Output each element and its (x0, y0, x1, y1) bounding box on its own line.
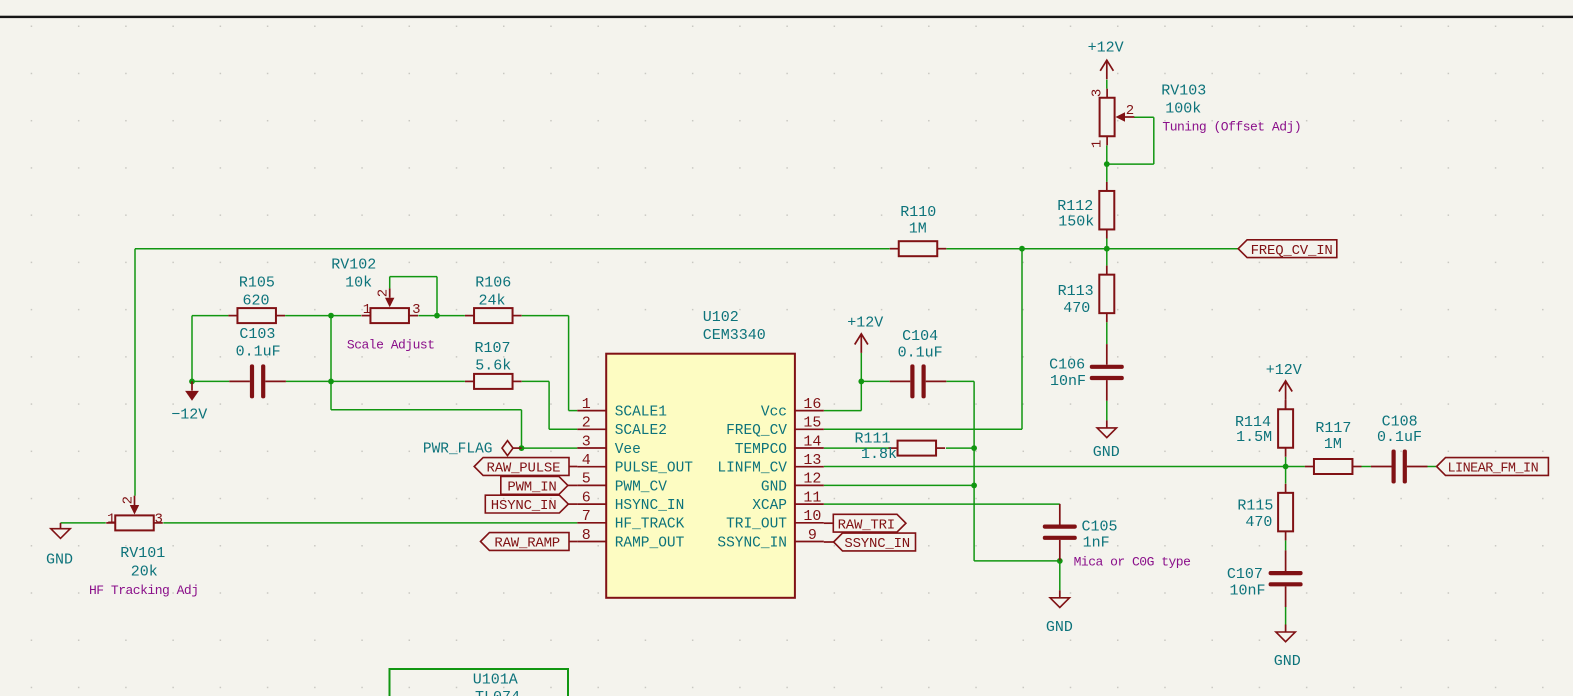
svg-text:0.1uF: 0.1uF (1377, 429, 1422, 446)
wire C103 to R107 (286, 380, 465, 382)
wire U102 pin15 FREQ_CV (824, 249, 1022, 429)
wire RV102 wiper loop (390, 277, 437, 316)
svg-text:R106: R106 (475, 275, 511, 292)
svg-text:+12V: +12V (1266, 362, 1302, 379)
svg-text:R117: R117 (1315, 420, 1351, 437)
wire -12V node to C103 (192, 380, 229, 382)
wire RV103 wiper loop (1107, 117, 1154, 164)
svg-text:R107: R107 (474, 340, 510, 357)
svg-text:SCALE2: SCALE2 (615, 423, 667, 439)
svg-text:Tuning (Offset Adj): Tuning (Offset Adj) (1162, 120, 1301, 135)
op-amp U102 CEM3340 (577, 309, 824, 598)
svg-text:1: 1 (107, 512, 115, 528)
svg-text:5: 5 (582, 471, 591, 488)
svg-text:HSYNC_IN: HSYNC_IN (615, 498, 685, 514)
svg-text:LINFM_CV: LINFM_CV (717, 461, 787, 477)
junction at 1285.6,466.5 (1283, 464, 1289, 470)
potentiometer RV101 20k (106, 496, 165, 581)
wire RV102 pin3 to R106 (418, 315, 465, 317)
wire FREQ_CV net horizontal rail (135, 248, 1239, 250)
svg-text:12: 12 (803, 471, 821, 488)
capacitor C106 10nF (1049, 344, 1124, 401)
svg-text:RAW_PULSE: RAW_PULSE (487, 461, 561, 477)
svg-text:R115: R115 (1237, 497, 1273, 514)
wire R107 to U102 pin2 SCALE2 (522, 381, 578, 429)
resistor R114 1.5M (1235, 400, 1293, 457)
svg-text:GND: GND (1093, 444, 1120, 461)
svg-text:U101A: U101A (473, 671, 518, 688)
global label LINEAR_FM_IN (1437, 458, 1549, 477)
svg-text:470: 470 (1245, 514, 1272, 531)
svg-text:1: 1 (582, 396, 591, 413)
svg-text:14: 14 (803, 433, 821, 450)
svg-text:TRI_OUT: TRI_OUT (726, 517, 787, 533)
svg-text:RV102: RV102 (331, 257, 376, 274)
svg-text:PWR_FLAG: PWR_FLAG (423, 442, 493, 458)
wire R105 left branch (192, 316, 228, 382)
svg-text:1: 1 (1089, 140, 1105, 148)
power -12V (171, 381, 207, 423)
svg-text:10: 10 (803, 508, 821, 525)
svg-text:GND: GND (46, 551, 73, 568)
junction at 1022,248.7 (1019, 246, 1025, 252)
wire RV101 pin3 to U102 pin7 HF_TRACK (163, 522, 577, 524)
wire U102 pin16 Vcc to +12V (824, 353, 862, 411)
junction at 437,315.6 (434, 313, 440, 319)
svg-text:+12V: +12V (1088, 39, 1124, 56)
wire GND to RV101 pin1 (61, 522, 106, 524)
svg-text:SSYNC_IN: SSYNC_IN (844, 536, 910, 552)
wire R113 to C106 (1106, 322, 1108, 344)
wire R117 to C108 (1362, 466, 1371, 468)
svg-text:−12V: −12V (171, 407, 207, 424)
svg-text:5.6k: 5.6k (475, 358, 511, 375)
svg-text:24k: 24k (478, 293, 505, 310)
svg-text:6: 6 (582, 489, 591, 506)
junction at 1106.8,248.7 (1104, 246, 1110, 252)
capacitor C104 0.1uF (890, 328, 947, 398)
svg-text:C104: C104 (902, 328, 938, 345)
wire node A vertical (330, 316, 332, 410)
wire RV103 top (1106, 80, 1108, 89)
svg-text:Vcc: Vcc (761, 405, 787, 421)
svg-text:U102: U102 (703, 309, 739, 326)
svg-text:8: 8 (582, 527, 591, 544)
svg-text:RV101: RV101 (120, 545, 165, 562)
svg-text:LINEAR_FM_IN: LINEAR_FM_IN (1448, 462, 1539, 477)
ground GND (C107) (1274, 625, 1301, 671)
svg-text:SCALE1: SCALE1 (615, 405, 667, 421)
svg-text:HF Tracking Adj: HF Tracking Adj (89, 583, 199, 598)
note Scale Adjust (347, 337, 435, 352)
svg-text:HSYNC_IN: HSYNC_IN (491, 498, 557, 514)
power +12V (U102 Vcc) (847, 314, 883, 353)
svg-text:CEM3340: CEM3340 (703, 327, 766, 344)
global label PWM_IN (501, 477, 578, 496)
svg-text:1nF: 1nF (1083, 534, 1110, 551)
svg-text:10nF: 10nF (1050, 373, 1086, 390)
svg-text:2: 2 (121, 496, 137, 504)
wire R111 to node B (946, 447, 974, 449)
junction at 861.3,381.4 (858, 379, 864, 385)
svg-text:C105: C105 (1082, 519, 1118, 536)
note HF Tracking Adj (89, 583, 199, 598)
svg-text:2: 2 (376, 289, 392, 297)
wire RV103 to R112 (1106, 145, 1108, 182)
sheet top border line (0, 16, 1573, 18)
potentiometer RV103 100k (1089, 83, 1206, 149)
svg-text:0.1uF: 0.1uF (898, 345, 943, 362)
svg-text:1: 1 (363, 302, 371, 318)
svg-text:11: 11 (803, 489, 821, 506)
resistor R117 1M (1305, 420, 1362, 474)
svg-text:GND: GND (761, 479, 787, 495)
svg-text:FREQ_CV: FREQ_CV (726, 423, 787, 439)
wire R106 to U102 pin1 SCALE1 (522, 316, 578, 411)
junction at 331,315.6 (328, 313, 334, 319)
power flag PWR_FLAG (423, 441, 522, 458)
note Mica or C0G type (1074, 554, 1191, 569)
wire R112 to FREQ_CV junction (1106, 239, 1108, 266)
wire C104 right to node B (946, 380, 974, 382)
svg-text:C107: C107 (1227, 566, 1263, 583)
svg-text:TL074: TL074 (475, 689, 520, 696)
svg-text:13: 13 (803, 452, 821, 469)
global label HSYNC_IN (485, 495, 577, 514)
svg-text:1M: 1M (909, 220, 927, 237)
svg-text:10nF: 10nF (1229, 583, 1265, 600)
junction at 974.1,485.4 (971, 483, 977, 489)
svg-text:15: 15 (803, 415, 821, 432)
wire node B vertical (973, 381, 975, 561)
global label RAW_TRI (824, 514, 906, 533)
svg-text:GND: GND (1046, 619, 1073, 636)
svg-text:1.8k: 1.8k (861, 446, 897, 463)
svg-text:16: 16 (803, 396, 821, 413)
wire U102 pin14 TEMPCO to R111 (824, 447, 889, 449)
wire R115 to C107 (1285, 540, 1287, 550)
global label RAW_PULSE (474, 458, 577, 477)
wire R105 to RV102 pin1 (285, 315, 361, 317)
svg-text:RAW_RAMP: RAW_RAMP (494, 536, 560, 552)
svg-text:Mica or C0G type: Mica or C0G type (1074, 554, 1191, 569)
global label SSYNC_IN (824, 533, 916, 552)
svg-text:+12V: +12V (847, 314, 883, 331)
resistor R111 1.8k (855, 431, 946, 464)
wire U102 pin12 GND to node B (824, 484, 974, 486)
junction at 1106.8,164.1 (1104, 161, 1110, 167)
power +12V (R114) (1266, 362, 1302, 410)
svg-text:R111: R111 (855, 431, 891, 448)
svg-text:3: 3 (154, 512, 162, 528)
resistor R112 150k (1057, 182, 1114, 239)
junction at 521.5,448.1 (519, 445, 525, 451)
junction at 1059.8,560.9 (1057, 558, 1063, 564)
svg-text:20k: 20k (131, 563, 158, 580)
capacitor C105 1nF (1043, 504, 1118, 561)
junction at 974.1,448.1 (971, 445, 977, 451)
capacitor C107 10nF (1227, 550, 1303, 607)
resistor R106 24k (465, 275, 522, 324)
svg-text:PWM_CV: PWM_CV (615, 479, 668, 495)
svg-text:2: 2 (582, 415, 591, 432)
svg-text:GND: GND (1274, 653, 1301, 670)
svg-text:2: 2 (1126, 103, 1134, 119)
svg-text:3: 3 (582, 433, 591, 450)
svg-text:3: 3 (412, 302, 420, 318)
wire C107 to GND (1285, 607, 1287, 625)
svg-text:Vee: Vee (615, 442, 641, 458)
wire C106 to GND (1106, 401, 1108, 421)
capacitor C103 0.1uF (229, 326, 286, 399)
svg-text:1.5M: 1.5M (1236, 429, 1272, 446)
resistor R113 470 (1058, 266, 1115, 323)
svg-text:SSYNC_IN: SSYNC_IN (717, 535, 787, 551)
junction at 331,381.4 (328, 379, 334, 385)
svg-text:RAW_TRI: RAW_TRI (838, 517, 895, 533)
svg-text:XCAP: XCAP (752, 498, 787, 514)
wire +12V junction to C104 (861, 380, 889, 382)
svg-text:R112: R112 (1057, 198, 1093, 215)
ground GND (C105) (1046, 590, 1073, 636)
wire U102 pin13 LINFM_CV long (824, 466, 1305, 468)
global label FREQ_CV_IN (1238, 240, 1337, 259)
svg-text:100k: 100k (1165, 101, 1201, 118)
svg-text:TEMPCO: TEMPCO (735, 442, 787, 458)
note Tuning (Offset Adj) (1162, 120, 1301, 135)
svg-text:7: 7 (582, 508, 591, 525)
svg-text:3: 3 (1089, 89, 1105, 97)
wire C108 to LINEAR_FM_IN (1428, 466, 1438, 468)
svg-text:9: 9 (808, 527, 817, 544)
svg-text:PWM_IN: PWM_IN (507, 480, 556, 496)
svg-text:R113: R113 (1058, 283, 1094, 300)
resistor R115 470 (1237, 484, 1293, 541)
capacitor C108 0.1uF (1371, 413, 1428, 483)
svg-text:620: 620 (242, 293, 269, 310)
resistor R107 5.6k (465, 340, 522, 389)
svg-text:470: 470 (1063, 300, 1090, 317)
wire Vee node to U102 pin3 (522, 447, 578, 449)
global label RAW_RAMP (481, 533, 578, 552)
wire node A to Vee node (331, 410, 522, 448)
svg-text:C108: C108 (1382, 413, 1418, 430)
svg-text:FREQ_CV_IN: FREQ_CV_IN (1251, 243, 1333, 259)
svg-text:RAMP_OUT: RAMP_OUT (615, 535, 685, 551)
op-amp U101A TL074 (partial) (390, 669, 569, 696)
svg-text:C103: C103 (239, 326, 275, 343)
wire C105 bottom to GND (1059, 561, 1061, 590)
ground GND (C106) (1093, 420, 1120, 460)
wire node B bottom to C105 junction (974, 560, 1060, 562)
svg-text:1M: 1M (1324, 436, 1342, 453)
svg-text:PULSE_OUT: PULSE_OUT (615, 461, 694, 477)
junction at 192,381.4 (189, 379, 195, 385)
potentiometer RV102 10k (331, 257, 420, 324)
svg-text:R105: R105 (239, 275, 275, 292)
resistor R110 1M (890, 204, 947, 256)
svg-text:4: 4 (582, 452, 591, 469)
power +12V (RV103) (1088, 39, 1124, 79)
svg-text:RV103: RV103 (1161, 83, 1206, 100)
svg-text:0.1uF: 0.1uF (236, 343, 281, 360)
svg-text:C106: C106 (1049, 356, 1085, 373)
svg-text:R110: R110 (900, 204, 936, 221)
wire U102 pin11 XCAP to C105 (824, 503, 1060, 505)
svg-text:HF_TRACK: HF_TRACK (615, 517, 685, 533)
resistor R105 620 (228, 275, 285, 324)
wire R114 to junction to R115 (1285, 457, 1287, 484)
ground GND (RV101) (46, 523, 73, 568)
wire RV101 wiper vertical (134, 249, 136, 496)
svg-text:150k: 150k (1058, 214, 1094, 231)
svg-text:10k: 10k (345, 275, 372, 292)
svg-text:Scale Adjust: Scale Adjust (347, 337, 435, 352)
